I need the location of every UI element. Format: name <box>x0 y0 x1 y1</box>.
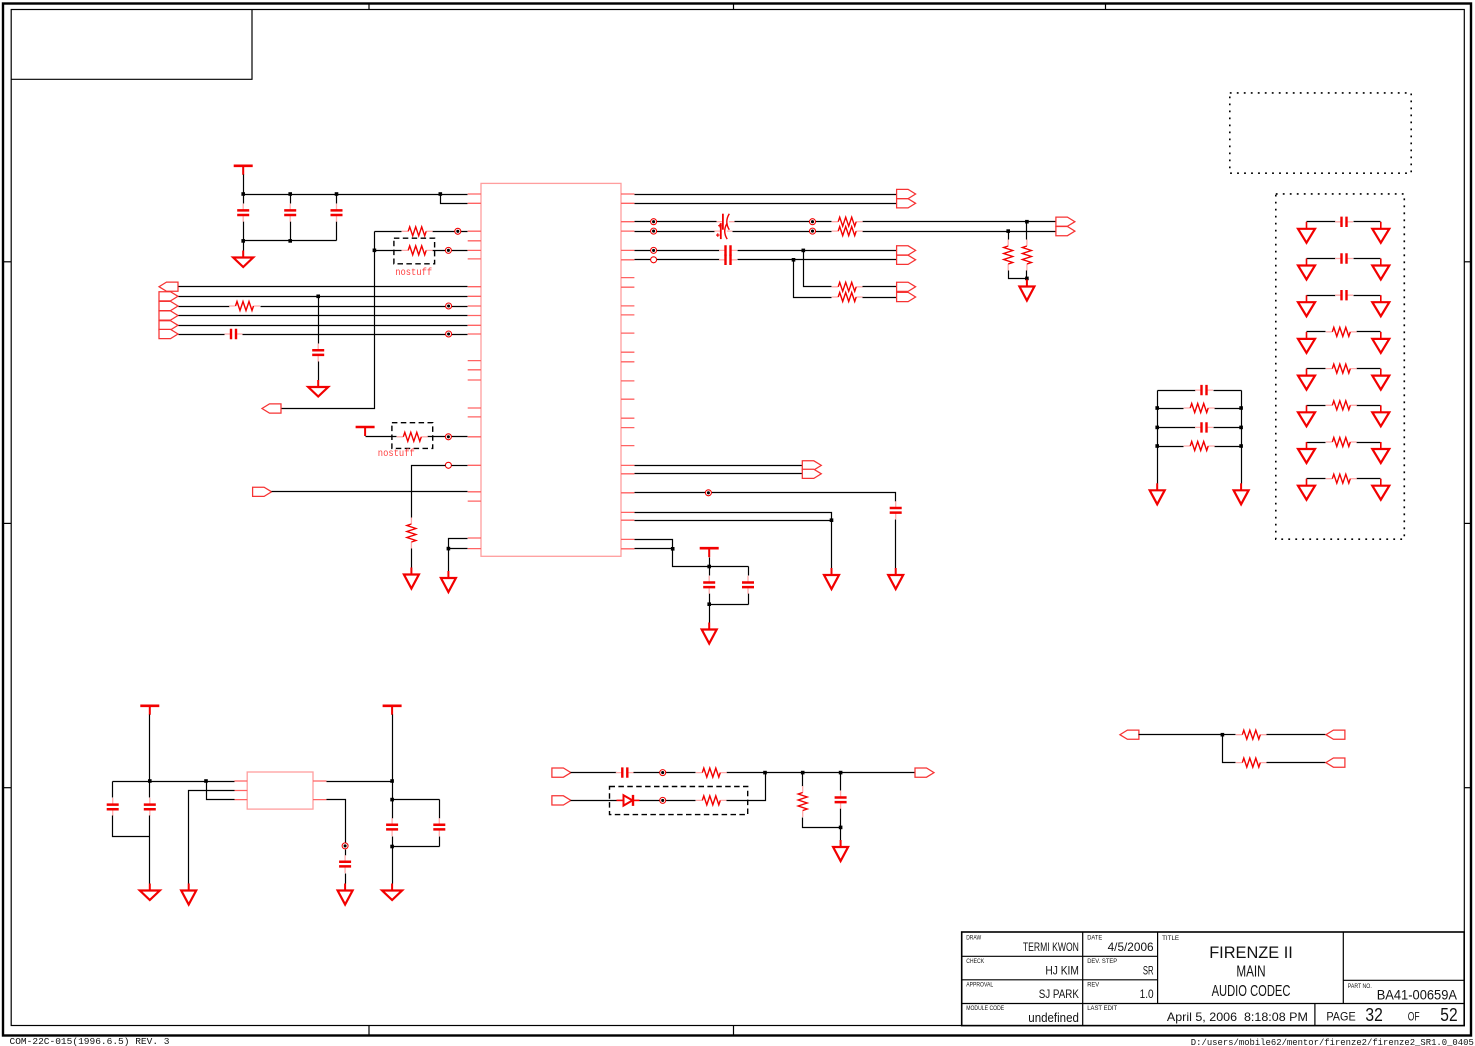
IC U1 left pin stubs <box>468 194 481 549</box>
svg-text:COM-22C-015(1996.6.5) REV. 3: COM-22C-015(1996.6.5) REV. 3 <box>10 1036 170 1046</box>
wire to ground <box>840 828 842 841</box>
wire drop 1 <box>804 251 832 287</box>
wire C12 top leg <box>149 782 151 798</box>
border zone tick left 2 <box>3 522 11 524</box>
wire panel row 1b <box>1354 221 1381 223</box>
wire junction <box>288 239 292 243</box>
power symbol AVDD <box>700 548 719 557</box>
wire cap leg top <box>243 195 245 204</box>
svg-text:TERMI KWON: TERMI KWON <box>1023 940 1079 954</box>
resistor panel row 6 <box>1326 401 1357 410</box>
wire U1 pin gnd b <box>449 548 468 550</box>
capacitor C11 <box>107 798 119 816</box>
wire ladder left rail <box>1157 391 1159 484</box>
capacitor C9 <box>703 576 715 594</box>
wire junction <box>1155 444 1159 448</box>
node test point hp1 <box>651 247 657 253</box>
wire junction <box>241 192 245 196</box>
resistor R4 (nostuff) <box>397 432 428 441</box>
ground G10 <box>181 884 196 905</box>
capacitor panel row 1 <box>1335 217 1353 227</box>
wire panel row 4b <box>1357 331 1381 333</box>
resistor R8 to ground <box>1004 240 1013 271</box>
svg-text:DRAW: DRAW <box>966 934 982 941</box>
wire bus line 6a <box>179 334 225 336</box>
wire junction <box>839 771 843 775</box>
svg-text:4/5/2006: 4/5/2006 <box>1108 940 1154 954</box>
wire cap rail bottom 2 <box>393 846 440 848</box>
ground G5 <box>1019 280 1034 301</box>
border zone tick right 3 <box>1464 787 1471 789</box>
capacitor C6 <box>719 245 737 255</box>
wire R8 top leg <box>1008 232 1010 240</box>
resistor R2 (nostuff) <box>402 246 433 255</box>
node test point R1 <box>651 228 657 234</box>
wire hp 2b <box>738 259 897 261</box>
border zone tick top 2 <box>733 4 735 10</box>
connector bus line 1 (left arrow) <box>159 282 178 291</box>
wire junction <box>1239 444 1243 448</box>
wire power to rail <box>709 558 711 567</box>
resistor R18 <box>1184 442 1215 451</box>
wire panel row 4a <box>1307 331 1326 333</box>
connector mic in 1 <box>552 768 571 777</box>
wire R2 row b <box>433 250 468 252</box>
svg-text:CHECK: CHECK <box>966 958 985 965</box>
connector bus line 5 <box>159 321 178 330</box>
ground panel row 5 left <box>1298 369 1315 390</box>
wire to D1 <box>571 800 617 802</box>
wire R14 top leg <box>802 773 804 787</box>
wire ladder rung 2a <box>1158 408 1184 410</box>
connector bus line 3 <box>159 301 178 310</box>
resistor panel row 7 <box>1326 438 1357 447</box>
connector bus line 4 <box>159 311 178 320</box>
wire junction <box>1025 220 1029 224</box>
ground panel row 1 right <box>1372 222 1389 243</box>
border zone tick right 1 <box>1464 261 1471 263</box>
nostuff dashed box <box>392 423 433 449</box>
wire vref <box>635 493 896 502</box>
connector hp out 2 <box>897 255 916 264</box>
connector lineout L <box>1056 217 1075 226</box>
wire junction <box>288 192 292 196</box>
wire R5 to ground <box>411 549 413 568</box>
ground G8 <box>702 623 717 644</box>
wire power drop <box>149 715 151 782</box>
wire junction <box>390 798 394 802</box>
wire to ground <box>448 549 450 572</box>
power symbol VDD top-left <box>234 166 253 175</box>
wire panel row 7b <box>1357 442 1381 444</box>
wire bus line 3b <box>261 306 468 308</box>
wire U2 out to power net <box>327 781 393 783</box>
connector out 1 (left arrow) <box>1326 730 1345 739</box>
wire i2s 1 <box>635 465 803 467</box>
wire lineout L c <box>863 221 1027 223</box>
wire R14 bottom <box>803 818 841 828</box>
wire ladder rung 4b <box>1215 446 1242 448</box>
ground panel row 8 right <box>1372 479 1389 500</box>
capacitor C5 <box>312 344 324 362</box>
svg-text:nostuff: nostuff <box>395 267 432 279</box>
svg-text:MAIN: MAIN <box>1236 964 1265 981</box>
wire test point to U1 <box>452 465 468 467</box>
wire junction <box>707 602 711 606</box>
wire bus line 4 <box>179 315 468 317</box>
wire panel row 5a <box>1307 368 1326 370</box>
wire R2 row a <box>375 250 402 252</box>
svg-text:APPROVAL: APPROVAL <box>966 981 993 988</box>
svg-text:SR: SR <box>1143 963 1154 977</box>
wire to C15 <box>345 850 347 856</box>
capacitor C7 <box>719 255 737 265</box>
capacitor C10 <box>742 576 754 594</box>
wire vertical net to connector <box>282 232 375 409</box>
resistor R15 <box>1236 730 1267 739</box>
wire junction <box>148 779 152 783</box>
wire panel row 3b <box>1354 295 1381 297</box>
filter block U2 body <box>247 772 313 809</box>
wire U2 out2 <box>327 800 346 846</box>
svg-text:FIRENZE II: FIRENZE II <box>1209 943 1293 962</box>
wire rail to U1 pin <box>441 194 468 196</box>
node test point D1 <box>660 797 666 803</box>
connector output arrow (left) <box>262 404 281 413</box>
ground G6 <box>888 568 903 589</box>
wire junction <box>1025 277 1029 281</box>
capacitor C4 on bus line 6 <box>225 329 243 339</box>
wire R4 row b <box>428 436 468 438</box>
wire cap leg bottom <box>290 222 292 241</box>
svg-text:DEV. STEP: DEV. STEP <box>1087 958 1117 965</box>
wire junction <box>335 192 339 196</box>
node test point L2 <box>810 219 816 225</box>
node test point mic <box>660 770 666 776</box>
ground panel row 6 right <box>1372 405 1389 426</box>
wire cap rail top 2 <box>393 799 440 801</box>
capacitor C16 <box>616 767 634 777</box>
wire cap leg top <box>336 195 338 204</box>
svg-text:LAST EDIT: LAST EDIT <box>1087 1005 1117 1012</box>
wire junction <box>1155 426 1159 430</box>
wire junction <box>373 249 377 253</box>
wire cap rail bottom <box>710 604 749 606</box>
revision box top-left <box>11 10 252 80</box>
wire cap rail top <box>710 566 749 568</box>
dotted box empty (top right) <box>1230 93 1411 173</box>
wire junction <box>447 547 451 551</box>
wire to R5 <box>412 466 446 518</box>
ground G3 <box>404 568 419 589</box>
wire C11 top leg <box>112 782 114 798</box>
node test point R2-U1 <box>445 247 451 253</box>
wire to connector L <box>1027 221 1056 223</box>
wire C15 to ground <box>345 874 347 884</box>
wire R16 right <box>1267 762 1326 764</box>
wire panel row 3a <box>1307 295 1336 297</box>
ground G12 <box>338 884 353 905</box>
wire junction <box>1239 406 1243 410</box>
capacitor C8 <box>890 501 902 519</box>
wire bus line 3a <box>179 306 230 308</box>
ground G2 <box>308 380 328 397</box>
svg-text:nostuff: nostuff <box>378 448 415 460</box>
border zone tick top 3 <box>1105 4 1107 10</box>
wire C13 leg bottom <box>392 837 394 847</box>
resistor R13 <box>696 796 727 805</box>
wire C12 bottom <box>149 816 151 837</box>
wire junction <box>390 779 394 783</box>
node test point R2 <box>810 228 816 234</box>
wire bus line 2 <box>179 296 468 298</box>
capacitor C13 <box>386 818 398 836</box>
connector in (left arrow) <box>1120 730 1139 739</box>
wire to C16 <box>571 772 617 774</box>
wire panel row 7a <box>1307 442 1326 444</box>
svg-text:PART NO.: PART NO. <box>1348 983 1372 990</box>
wire cap C5 lower leg <box>318 362 320 381</box>
wire R4 row a <box>366 436 397 438</box>
wire panel row 2b <box>1354 258 1381 260</box>
wire power to rail <box>243 175 245 195</box>
title block grid <box>962 932 1464 1026</box>
node open test point <box>445 462 451 468</box>
capacitor C15 <box>339 855 351 873</box>
svg-text:REV: REV <box>1087 981 1100 988</box>
wire R10 to connector <box>863 286 897 288</box>
wire panel row 8a <box>1307 478 1326 480</box>
wire junction <box>204 779 208 783</box>
connector lineout R <box>1056 227 1075 236</box>
svg-text:April 5, 2006 8:18:08 PM: April 5, 2006 8:18:08 PM <box>1167 1010 1308 1024</box>
wire gnd pin a <box>635 513 832 521</box>
resistor panel row 8 <box>1326 474 1357 483</box>
wire junction <box>763 771 767 775</box>
wire junction <box>830 518 834 522</box>
wire bus line 6b <box>243 334 468 336</box>
border zone tick left 1 <box>3 261 11 263</box>
wire cap leg top <box>290 195 292 204</box>
wire R9 top leg <box>1026 222 1028 240</box>
node test point bus3 <box>446 303 452 309</box>
connector i2s 2 <box>802 469 821 478</box>
wire ladder right rail <box>1241 391 1243 484</box>
wire junction <box>439 192 443 196</box>
audio codec IC U1 body <box>481 183 621 556</box>
node test point bus6 <box>446 331 452 337</box>
capacitor C18 <box>1195 385 1213 395</box>
wire lineout L b <box>735 221 832 223</box>
svg-text:D:/users/mobile62/mentor/firen: D:/users/mobile62/mentor/firenze2/firenz… <box>1191 1037 1474 1046</box>
wire i2s 2 <box>635 473 803 475</box>
U2 right pin stubs <box>313 781 327 800</box>
ground panel row 8 left <box>1298 479 1315 500</box>
wire cap C5 upper leg <box>318 297 320 344</box>
node open test point hp2 <box>651 257 657 263</box>
border zone tick left 3 <box>3 787 11 789</box>
wire junction <box>316 295 320 299</box>
border zone tick top 1 <box>368 4 370 10</box>
ground G9 <box>140 884 160 901</box>
U2 left pin stubs <box>234 781 247 800</box>
wire junction <box>707 565 711 569</box>
wire junction <box>1221 733 1225 737</box>
resistor R5 <box>407 518 416 549</box>
wire C10 leg bottom <box>748 594 750 605</box>
capacitor panel row 3 <box>1335 290 1353 300</box>
resistor R11 <box>832 293 863 302</box>
wire panel row 6a <box>1307 405 1326 407</box>
wire junction <box>792 258 796 262</box>
connector hp out 4 <box>897 292 916 301</box>
wire to connector R <box>1009 231 1056 233</box>
resistor R3 on bus line 3 <box>229 302 260 311</box>
wire C13 leg top <box>392 800 394 819</box>
resistor R1 <box>402 227 433 236</box>
connector i2s 1 <box>802 461 821 470</box>
wire hp 1a <box>635 250 720 252</box>
connector input (mic) <box>253 487 272 496</box>
wire bus line 1 <box>179 286 468 288</box>
ground G4 <box>441 571 456 592</box>
svg-text:OF: OF <box>1408 1010 1420 1024</box>
wire ladder rung 2b <box>1215 408 1242 410</box>
wire mic rail b <box>727 772 916 774</box>
wire R15 left <box>1223 734 1236 736</box>
svg-text:HJ KIM: HJ KIM <box>1045 963 1079 977</box>
nostuff dashed box diode <box>610 787 748 815</box>
resistor panel row 5 <box>1326 364 1357 373</box>
wire R11 to connector <box>863 297 897 299</box>
wire U2 pin2 to ground <box>189 791 235 884</box>
wire avdd to caps <box>673 549 710 567</box>
connector hp out 3 <box>897 282 916 291</box>
wire junction <box>1006 229 1010 233</box>
connector mic in 2 <box>552 796 571 805</box>
wire C11 bottom <box>113 816 150 837</box>
wire junction <box>390 845 394 849</box>
wire power drop 2 <box>392 715 394 782</box>
wire panel row 1a <box>1307 221 1336 223</box>
wire junction <box>1239 426 1243 430</box>
ground G13 <box>833 840 848 861</box>
power symbol nostuff row <box>356 427 375 436</box>
capacitor C12 <box>144 798 156 816</box>
wire rail to block U2 <box>113 781 235 783</box>
wire to ground <box>392 847 394 884</box>
wire C10 leg top <box>748 567 750 576</box>
wire junction <box>801 771 805 775</box>
capacitor C14 <box>433 818 445 836</box>
wire R9 bottom to ground <box>1026 271 1028 280</box>
resistor R12 <box>696 768 727 777</box>
wire down to cap rail <box>392 782 394 800</box>
wire panel row 6b <box>1357 405 1381 407</box>
ground panel row 7 left <box>1298 442 1315 463</box>
power symbol bottom-left 1 <box>140 706 159 715</box>
wire R1 row b <box>433 231 468 233</box>
ground panel row 4 right <box>1372 332 1389 353</box>
wire panel row 2a <box>1307 258 1336 260</box>
wire top rail <box>244 194 441 196</box>
node test point R1-U1 <box>455 228 461 234</box>
wire ladder rung 4a <box>1158 446 1184 448</box>
ground panel row 6 left <box>1298 405 1315 426</box>
polarized capacitor C20 <box>717 214 735 230</box>
wire avdd pin b <box>635 548 673 550</box>
border zone tick right 2 <box>1464 522 1471 524</box>
wire ladder rung 1a <box>1158 390 1196 392</box>
wire U2 pin3 to rail <box>207 782 235 800</box>
wire to ground <box>709 605 711 623</box>
wire cap leg bottom <box>336 222 338 241</box>
wire bottom rail <box>244 240 337 242</box>
svg-text:1.0: 1.0 <box>1140 987 1154 1001</box>
wire to ground <box>149 837 151 884</box>
wire branch to U1 pin 2 <box>441 195 468 204</box>
wire U1 out 2 <box>635 203 897 205</box>
ground panel row 7 right <box>1372 442 1389 463</box>
wire C14 leg top <box>439 800 441 819</box>
wire hp 2a <box>635 259 720 261</box>
ground panel row 3 left <box>1298 295 1315 316</box>
ground panel row 4 left <box>1298 332 1315 353</box>
svg-text:BA41-00659A: BA41-00659A <box>1377 987 1457 1002</box>
wire avdd pin a <box>635 540 673 549</box>
ground G11 <box>382 884 402 901</box>
capacitor C3 <box>331 204 343 222</box>
wire lineout R a <box>635 231 715 233</box>
svg-text:MODULE CODE: MODULE CODE <box>966 1005 1005 1012</box>
svg-text:52: 52 <box>1440 1005 1457 1025</box>
polarized capacitor C21 <box>714 223 732 239</box>
resistor R9 to ground <box>1022 240 1031 271</box>
wire hp 1b <box>738 250 897 252</box>
wire lineout R b <box>733 231 832 233</box>
ground panel row 2 left <box>1298 259 1315 280</box>
svg-text:PAGE: PAGE <box>1326 1010 1355 1024</box>
border zone tick bottom 1 <box>368 1026 370 1036</box>
ground G1 <box>233 251 253 268</box>
wire drop 2 <box>794 260 832 298</box>
ground panel row 1 left <box>1298 222 1315 243</box>
svg-text:AUDIO CODEC: AUDIO CODEC <box>1212 983 1291 1000</box>
wire to R16 <box>1223 735 1236 763</box>
ground G7 <box>824 568 839 589</box>
wire lineout R c <box>863 231 1009 233</box>
connector output 2 <box>897 199 916 208</box>
ground G14 <box>1150 483 1165 504</box>
IC U1 right pin stubs <box>621 194 634 549</box>
capacitor panel row 2 <box>1335 253 1353 263</box>
wire to junction <box>1139 734 1223 736</box>
node test point U2 out2 <box>342 843 348 849</box>
wire ladder rung 3a <box>1158 427 1196 429</box>
resistor R14 <box>798 786 807 817</box>
connector out 2 (left arrow) <box>1326 758 1345 767</box>
wire junction <box>671 547 675 551</box>
wire panel row 8b <box>1357 478 1381 480</box>
diode D1 (nostuff) <box>617 795 640 806</box>
connector bus line 2 <box>159 292 178 301</box>
wire D1 to R13 <box>640 800 696 802</box>
resistor panel row 4 <box>1326 327 1357 336</box>
wire junction <box>839 826 843 830</box>
resistor R7 <box>832 227 863 236</box>
wire C14 leg bottom <box>439 837 441 847</box>
capacitor C1 <box>237 204 249 222</box>
